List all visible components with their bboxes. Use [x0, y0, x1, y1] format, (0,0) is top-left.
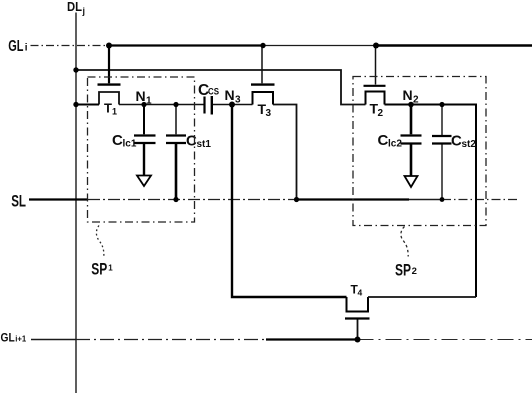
wire: storage line SL [29, 198, 519, 200]
svg-text:N: N [136, 88, 146, 104]
svg-text:2: 2 [412, 266, 417, 277]
subpixel SP1 boundary box [88, 77, 195, 222]
svg-text:lc1: lc1 [123, 139, 137, 150]
svg-text:SL: SL [11, 192, 26, 211]
junction: branch on DLj [73, 67, 78, 72]
label Clc2 [378, 132, 403, 150]
wire: T1 source segment [76, 104, 99, 106]
wire: gate line GLi [31, 45, 532, 47]
svg-text:1: 1 [146, 96, 152, 107]
wire: branch from DLj to T2 source [76, 70, 366, 105]
common electrode symbol of Clc2 (open triangle) [405, 176, 418, 187]
label T1 [104, 101, 117, 117]
svg-text:3: 3 [235, 95, 241, 106]
label SP2 [395, 261, 417, 280]
svg-text:N: N [225, 87, 235, 103]
junction: T1 gate on GLi [106, 43, 112, 49]
label GLi [8, 38, 28, 55]
svg-text:C: C [451, 133, 462, 150]
wire: T4 drain to right branch corner [368, 296, 476, 298]
svg-text:i: i [25, 43, 28, 54]
wire: Ccs to node N3 [213, 104, 253, 106]
wire: T1 drain to node N1 and Ccs [119, 104, 204, 106]
label SP1 [91, 260, 113, 279]
transistor T3 [251, 46, 275, 105]
leader line to SP1 label [96, 226, 103, 259]
transistor T4 [345, 297, 370, 340]
svg-text:j: j [82, 6, 86, 16]
junction: T1 source on DLj [73, 102, 78, 107]
label N2 [403, 87, 420, 106]
svg-text:st2: st2 [462, 139, 477, 150]
svg-text:i+1: i+1 [15, 334, 26, 344]
wire: N3 down and across to T4 source [232, 105, 347, 298]
wire: T2 drain to node N2 and right branch down [385, 105, 477, 298]
label Ccs [198, 82, 219, 99]
svg-text:C: C [186, 133, 197, 150]
junction: Cst1 top on N1 wire [173, 102, 178, 107]
svg-text:C: C [378, 132, 389, 149]
junction: Cst2 top on N2 wire [439, 102, 444, 107]
svg-text:1: 1 [112, 107, 117, 117]
label T3 [258, 101, 272, 119]
svg-text:SP: SP [91, 260, 107, 279]
svg-text:SP: SP [395, 261, 411, 280]
svg-text:CS: CS [208, 87, 219, 97]
node N3 junction dot [229, 102, 235, 108]
svg-text:st1: st1 [197, 139, 212, 150]
svg-text:1: 1 [108, 264, 113, 273]
label SL [11, 192, 26, 211]
label N3 [225, 87, 242, 106]
common electrode symbol of Clc1 (open triangle) [137, 176, 151, 187]
svg-text:GL: GL [8, 38, 23, 55]
svg-text:T: T [104, 101, 112, 116]
svg-text:GL: GL [1, 331, 15, 345]
svg-text:3: 3 [266, 108, 272, 119]
label GLi+1 [1, 331, 27, 345]
label Cst2 [451, 133, 476, 151]
svg-text:2: 2 [378, 108, 384, 119]
capacitor Ccs (series coupling) [205, 96, 212, 115]
svg-text:C: C [112, 132, 123, 149]
wire: gate line GLi+1 [31, 339, 532, 341]
junction: T4 gate on GLi+1 [355, 337, 361, 343]
wire: T3 drain down to SL [273, 105, 297, 200]
transistor T2 [364, 46, 386, 105]
subpixel SP2 boundary box [353, 77, 486, 226]
svg-text:2: 2 [413, 95, 419, 106]
svg-text:DL: DL [67, 0, 82, 14]
svg-text:4: 4 [358, 288, 363, 298]
label T4 [351, 283, 363, 298]
label N1 [136, 88, 153, 107]
label DLj [67, 0, 85, 16]
capacitor Cst2 [432, 105, 452, 200]
transistor T1 [98, 46, 121, 105]
node N1 junction dot [141, 102, 146, 107]
leader line to SP2 label [401, 227, 408, 257]
label T2 [370, 101, 384, 120]
svg-text:N: N [403, 87, 413, 103]
junction: T3 gate on GLi [260, 43, 265, 48]
junction: T2 gate on GLi [373, 43, 379, 49]
node N2 junction dot [408, 102, 414, 108]
capacitor Clc2 [401, 105, 422, 177]
junction: Cst2 bottom on SL [440, 197, 445, 202]
capacitor Cst1 [166, 105, 186, 200]
svg-text:lc2: lc2 [388, 139, 402, 150]
junction: Cst1 bottom on SL [173, 197, 178, 202]
wire: data line DLj vertical [75, 13, 77, 393]
junction: T3 drain on SL [294, 197, 299, 202]
capacitor Clc1 [134, 105, 156, 176]
label Clc1 [112, 132, 137, 150]
label Cst1 [186, 133, 211, 151]
